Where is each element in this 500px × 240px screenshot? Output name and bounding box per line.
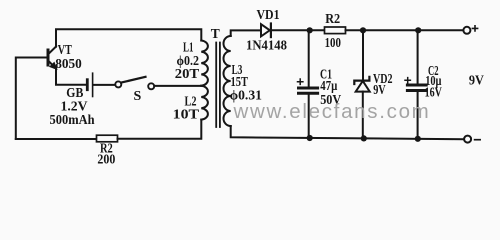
label VD1: [257, 8, 280, 23]
wire switch to transformer center tap: [154, 85, 201, 87]
value 1.2V: [61, 100, 88, 115]
wire C1 top lead: [308, 30, 310, 86]
value 9V: [373, 82, 386, 97]
svg-text:T: T: [211, 26, 220, 41]
svg-text:200: 200: [97, 153, 115, 168]
svg-text:VD1: VD1: [257, 8, 280, 23]
value 1N4148: [246, 39, 287, 54]
svg-text:S: S: [134, 89, 142, 104]
capacitor C2 (10u 16V): [407, 85, 426, 91]
transistor VT (8050): [48, 47, 56, 69]
svg-text:8050: 8050: [55, 57, 82, 72]
node junction bottom C1: [307, 135, 313, 141]
svg-text:10T: 10T: [173, 108, 200, 123]
svg-text:47µ: 47µ: [320, 79, 337, 94]
svg-text:20T: 20T: [175, 67, 200, 82]
value 50V: [320, 93, 341, 108]
wire battery to switch: [94, 84, 116, 86]
battery GB (1.2V 500mAh): [87, 73, 92, 96]
value 100: [325, 36, 341, 51]
resistor R2 (200): [97, 135, 118, 142]
svg-text:9V: 9V: [373, 82, 386, 97]
value 500mAh: [50, 113, 95, 128]
label plus of C1: [298, 79, 303, 84]
label L1: [183, 41, 194, 56]
node junction top C1: [307, 27, 313, 33]
label plus sign: [472, 26, 477, 31]
svg-text:500mAh: 500mAh: [50, 113, 95, 128]
label C1: [320, 68, 332, 83]
wire VD2 bottom lead: [362, 92, 364, 139]
value 47u: [320, 79, 337, 94]
resistor R2 (100): [325, 27, 346, 34]
label R2 (left): [100, 142, 113, 157]
node junction bottom C2: [415, 136, 421, 142]
wire VD2 top lead: [362, 30, 364, 80]
value 200: [97, 153, 115, 168]
label S: [134, 89, 142, 104]
value 10u: [425, 74, 441, 89]
wire base loop (base wire + left rail): [16, 58, 47, 140]
transformer T primary winding L2: [201, 86, 208, 120]
wire collector to top rail: [56, 29, 201, 46]
svg-text:1N4148: 1N4148: [246, 39, 287, 54]
svg-text:9V: 9V: [469, 74, 484, 89]
svg-text:R2: R2: [325, 12, 340, 27]
label minus sign: [475, 139, 481, 141]
svg-text:16V: 16V: [425, 85, 442, 100]
watermark www.elecfans.com: [233, 100, 431, 123]
label L3: [232, 63, 243, 78]
label plus of C2: [405, 78, 410, 83]
zener diode VD2 (9V): [354, 77, 369, 92]
label 9V output: [469, 74, 484, 89]
value phi0.31: [230, 88, 262, 103]
terminal minus output: [464, 136, 471, 143]
transformer secondary winding L3: [224, 36, 231, 126]
wire bottom-left rail (left of R2): [16, 138, 97, 140]
label VD2: [373, 71, 393, 86]
label R2 (right): [325, 12, 340, 27]
node junction top VD2: [360, 27, 366, 33]
wire C2 bottom lead: [417, 92, 419, 139]
svg-text:VT: VT: [58, 43, 73, 58]
node junction bottom VD2: [361, 135, 367, 141]
value 8050: [55, 57, 82, 72]
svg-text:100: 100: [325, 36, 341, 51]
label VT: [58, 43, 73, 58]
label GB: [66, 86, 83, 101]
diode VD1 (1N4148): [261, 24, 271, 38]
transformer T primary winding L1: [201, 41, 208, 86]
wire C1 bottom lead: [308, 95, 310, 138]
value 15T: [231, 75, 249, 90]
label C2: [428, 64, 439, 79]
value 16V: [425, 85, 442, 100]
wire C2 top lead: [417, 30, 419, 83]
wire secondary top: [231, 30, 261, 36]
switch S: [115, 77, 154, 90]
wire bottom-left rail (right of R2): [118, 120, 202, 139]
value phi0.2: [177, 54, 200, 69]
wire R2 to plus terminal: [346, 29, 464, 31]
transformer core: [216, 43, 220, 128]
wire VD1 to R2: [271, 29, 325, 31]
wire bottom-right rail: [231, 126, 464, 139]
terminal plus output: [463, 27, 470, 34]
value 10T: [173, 108, 200, 123]
label L2: [185, 95, 197, 110]
label T: [211, 26, 220, 41]
svg-text:www.elecfans.com: www.elecfans.com: [233, 100, 431, 123]
capacitor C1 (47u 50V): [299, 88, 318, 93]
value 20T: [175, 67, 200, 82]
node junction top C2: [415, 27, 421, 33]
wire emitter down: [56, 68, 86, 84]
